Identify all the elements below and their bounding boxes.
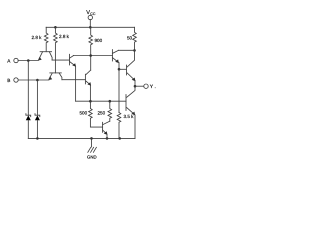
node output Y junction: [134, 85, 137, 88]
resistor R3 900: [89, 27, 103, 70]
transistor Q3 (phase splitter A): [70, 54, 77, 67]
wire Q2 collector to Q4 base: [62, 79, 86, 81]
input A terminal: [14, 58, 18, 62]
resistor R4 50: [127, 27, 136, 50]
svg-text:GND: GND: [87, 154, 97, 159]
resistor R6 250: [98, 101, 112, 121]
svg-text:B: B: [7, 78, 10, 83]
node 900 junction: [89, 54, 92, 57]
svg-text:3.5 k: 3.5 k: [124, 114, 135, 119]
svg-text:500: 500: [80, 111, 88, 116]
transistor Q1 (input A): [38, 52, 52, 61]
svg-text:250: 250: [98, 111, 106, 116]
node Q6 base tap: [118, 68, 121, 71]
svg-text:900: 900: [95, 38, 103, 43]
wire input B: [18, 79, 49, 81]
node ground stub junction: [90, 137, 93, 140]
wire squaring network node line: [76, 100, 126, 102]
wire Q8 emitter to ground: [106, 134, 108, 138]
transistor Q6 (darlington output): [127, 50, 136, 81]
output Y terminal: [144, 84, 148, 88]
node Vcc rail junction: [89, 26, 92, 29]
wire to output terminal: [135, 85, 144, 87]
wire input A: [18, 60, 38, 62]
resistor R1 2.8k: [32, 27, 49, 51]
input B terminal: [14, 78, 18, 82]
node Q8 emitter ground junction: [106, 137, 109, 140]
node D2 ground junction: [36, 137, 39, 140]
wire Q5 emitter down to 3.5k: [118, 63, 120, 113]
transistor Q4 (phase splitter B): [85, 70, 91, 86]
node 3.5k ground junction: [118, 137, 121, 140]
svg-text:50: 50: [127, 35, 133, 40]
wire Q3 collector to 900/Q5 base line: [74, 55, 113, 57]
Vcc terminal label: [86, 10, 96, 16]
ground symbol: [87, 138, 97, 159]
diode D1 (input A clamp, Schottky): [26, 61, 31, 139]
wire Vcc top rail: [46, 26, 134, 28]
resistor R5 500: [80, 101, 103, 127]
wire Q4 emitter down: [89, 85, 91, 101]
node A diode junction: [27, 59, 30, 62]
resistor R7 3.5k: [117, 113, 134, 139]
wire Q6 emitter to output node: [134, 81, 136, 87]
svg-text:Y .: Y .: [150, 84, 156, 90]
wire Q6 base: [119, 68, 126, 70]
svg-text:2.8 k: 2.8 k: [32, 35, 43, 40]
node 50-ohm bottom junction: [133, 49, 136, 52]
node R2 top junction: [54, 26, 57, 29]
Vcc terminal circle: [88, 15, 92, 19]
transistor Q7 (pull-down output): [126, 86, 135, 115]
node 500 top junction: [89, 100, 92, 103]
wire Q5 collector to 50 ohm node: [119, 49, 135, 51]
wire ground rail: [28, 137, 135, 139]
wire Vcc stub: [89, 20, 91, 28]
wire Q7 emitter to ground: [134, 115, 136, 138]
svg-text:2.8 k: 2.8 k: [59, 34, 70, 39]
svg-text:A: A: [7, 58, 11, 63]
diode D2 (input B clamp, Schottky): [35, 80, 40, 138]
wire Q3 emitter down: [75, 66, 77, 101]
resistor R2 2.8k: [54, 27, 70, 73]
wire Q1 collector to Q2 base: [52, 59, 69, 61]
transistor Q8 (squaring network): [103, 121, 110, 135]
transistor Q5 (darlington driver): [112, 50, 119, 64]
node B diode junction: [36, 79, 39, 82]
node 250 top junction: [109, 100, 112, 103]
transistor Q2 (input B): [49, 73, 62, 80]
